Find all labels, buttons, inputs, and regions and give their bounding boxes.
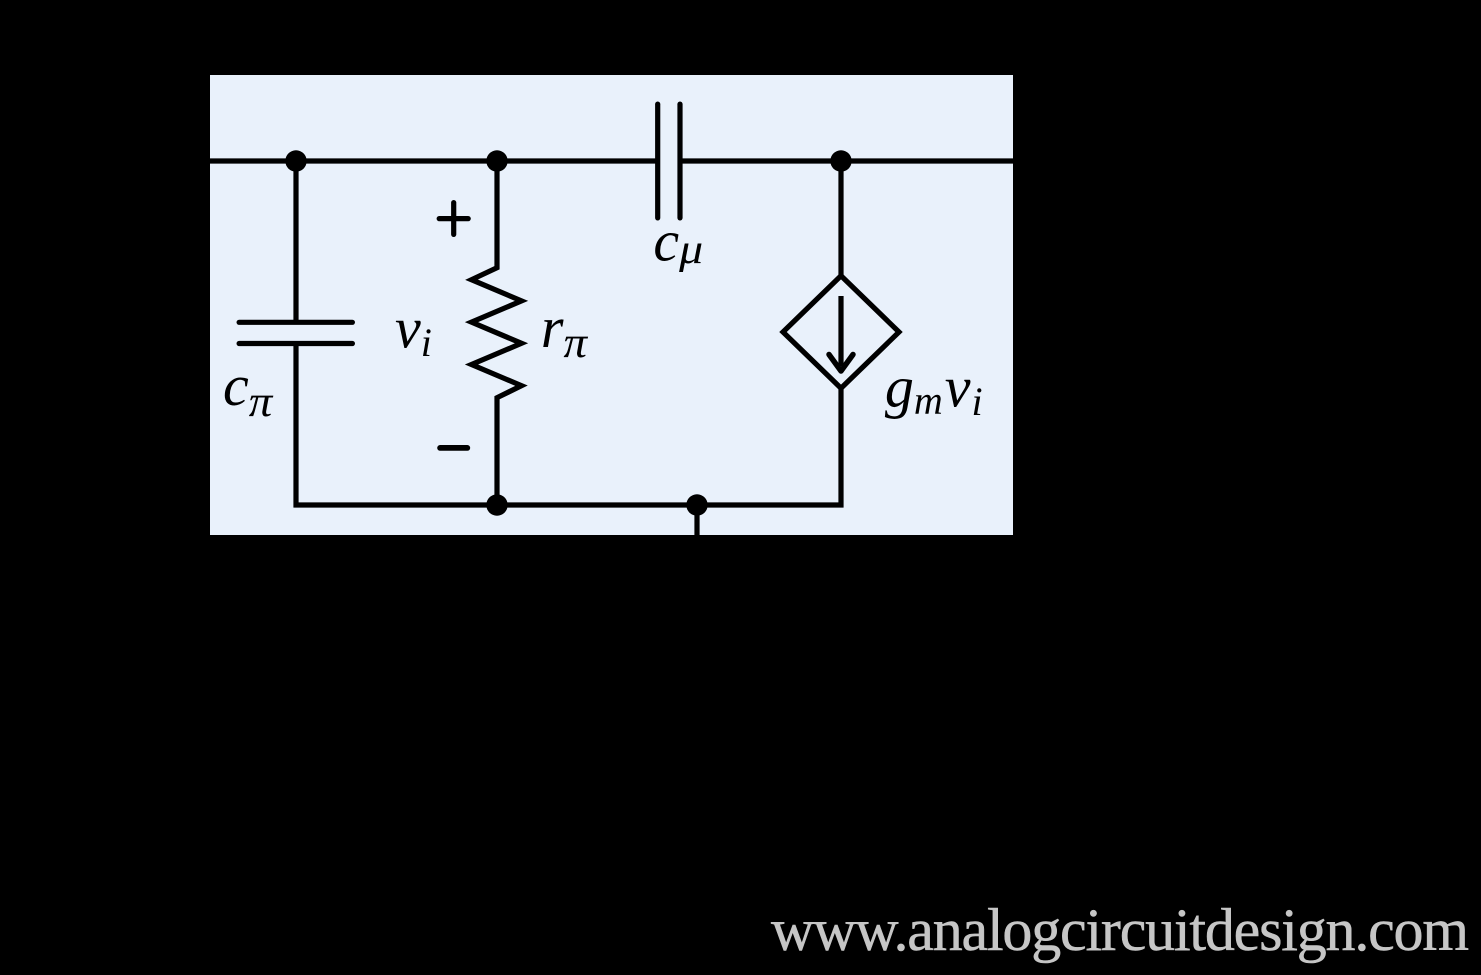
junction node dot (bottom ground stub)	[686, 494, 707, 515]
wire: dependent source branch lower segment	[838, 388, 843, 508]
resistor rpi (zigzag, with branch wires)	[472, 159, 522, 508]
minus sign (vi polarity -)	[440, 445, 467, 451]
capacitor Cmu (plates)	[658, 104, 680, 218]
wire: Cpi branch upper segment	[293, 159, 298, 323]
junction node dot (top rpi)	[486, 150, 507, 171]
wire: top rail left segment (input node B to Cmu)	[210, 158, 658, 163]
wire: dependent source branch upper segment	[838, 159, 843, 277]
plus sign (vi polarity +)	[439, 203, 468, 235]
wire: bottom rail (emitter/ground rail)	[294, 502, 844, 507]
wire: Cpi branch lower segment	[293, 344, 298, 508]
arrow inside source	[829, 296, 853, 371]
dependent current source gm*vi (diamond)	[783, 276, 899, 388]
junction node dot (bottom rpi)	[486, 494, 507, 515]
junction node dot (top right, source/top rail)	[830, 150, 851, 171]
junction node dot (top left, Cpi/top rail)	[285, 150, 306, 171]
capacitor Cpi (plates)	[239, 322, 352, 343]
wire: ground stub	[694, 505, 699, 558]
schematic background panel	[210, 75, 1013, 535]
svg-text:www.analogcircuitdesign.com: www.analogcircuitdesign.com	[771, 897, 1468, 963]
wire: top rail right segment (Cmu to output node C)	[680, 158, 1013, 163]
